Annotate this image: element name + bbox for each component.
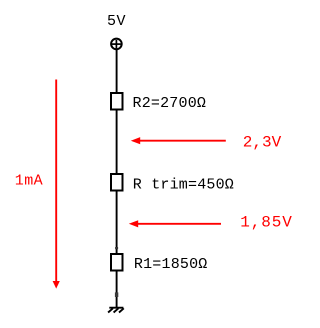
- voltage arrow 2,3V (red, pointing left at R2/Rtrim node): [131, 137, 226, 144]
- svg-text:R2=2700Ω: R2=2700Ω: [133, 95, 207, 112]
- resistor R2: [111, 93, 123, 110]
- current arrow 1mA (red, downward): [53, 80, 60, 289]
- ground: [108, 308, 124, 313]
- resistor R trim: [111, 174, 123, 191]
- wire R trim to R1: [116, 191, 118, 255]
- svg-text:1,85V: 1,85V: [240, 214, 293, 232]
- wire joint bump above R1: [115, 247, 118, 249]
- voltage arrow 1,85V (red, pointing left at Rtrim/R1 node): [129, 220, 221, 227]
- supply terminal circle with plus: [111, 39, 122, 50]
- resistor R1: [111, 254, 123, 271]
- wire R2 to R trim: [116, 110, 118, 175]
- svg-text:1mA: 1mA: [15, 172, 43, 189]
- wire R1 to ground: [116, 271, 118, 308]
- svg-text:R trim=450Ω: R trim=450Ω: [133, 176, 234, 193]
- wire joint bump: [115, 292, 118, 297]
- svg-text:2,3V: 2,3V: [243, 133, 282, 151]
- wire from 5V terminal to R2: [116, 50, 118, 94]
- svg-text:R1=1850Ω: R1=1850Ω: [134, 256, 208, 273]
- svg-text:5V: 5V: [107, 13, 126, 30]
